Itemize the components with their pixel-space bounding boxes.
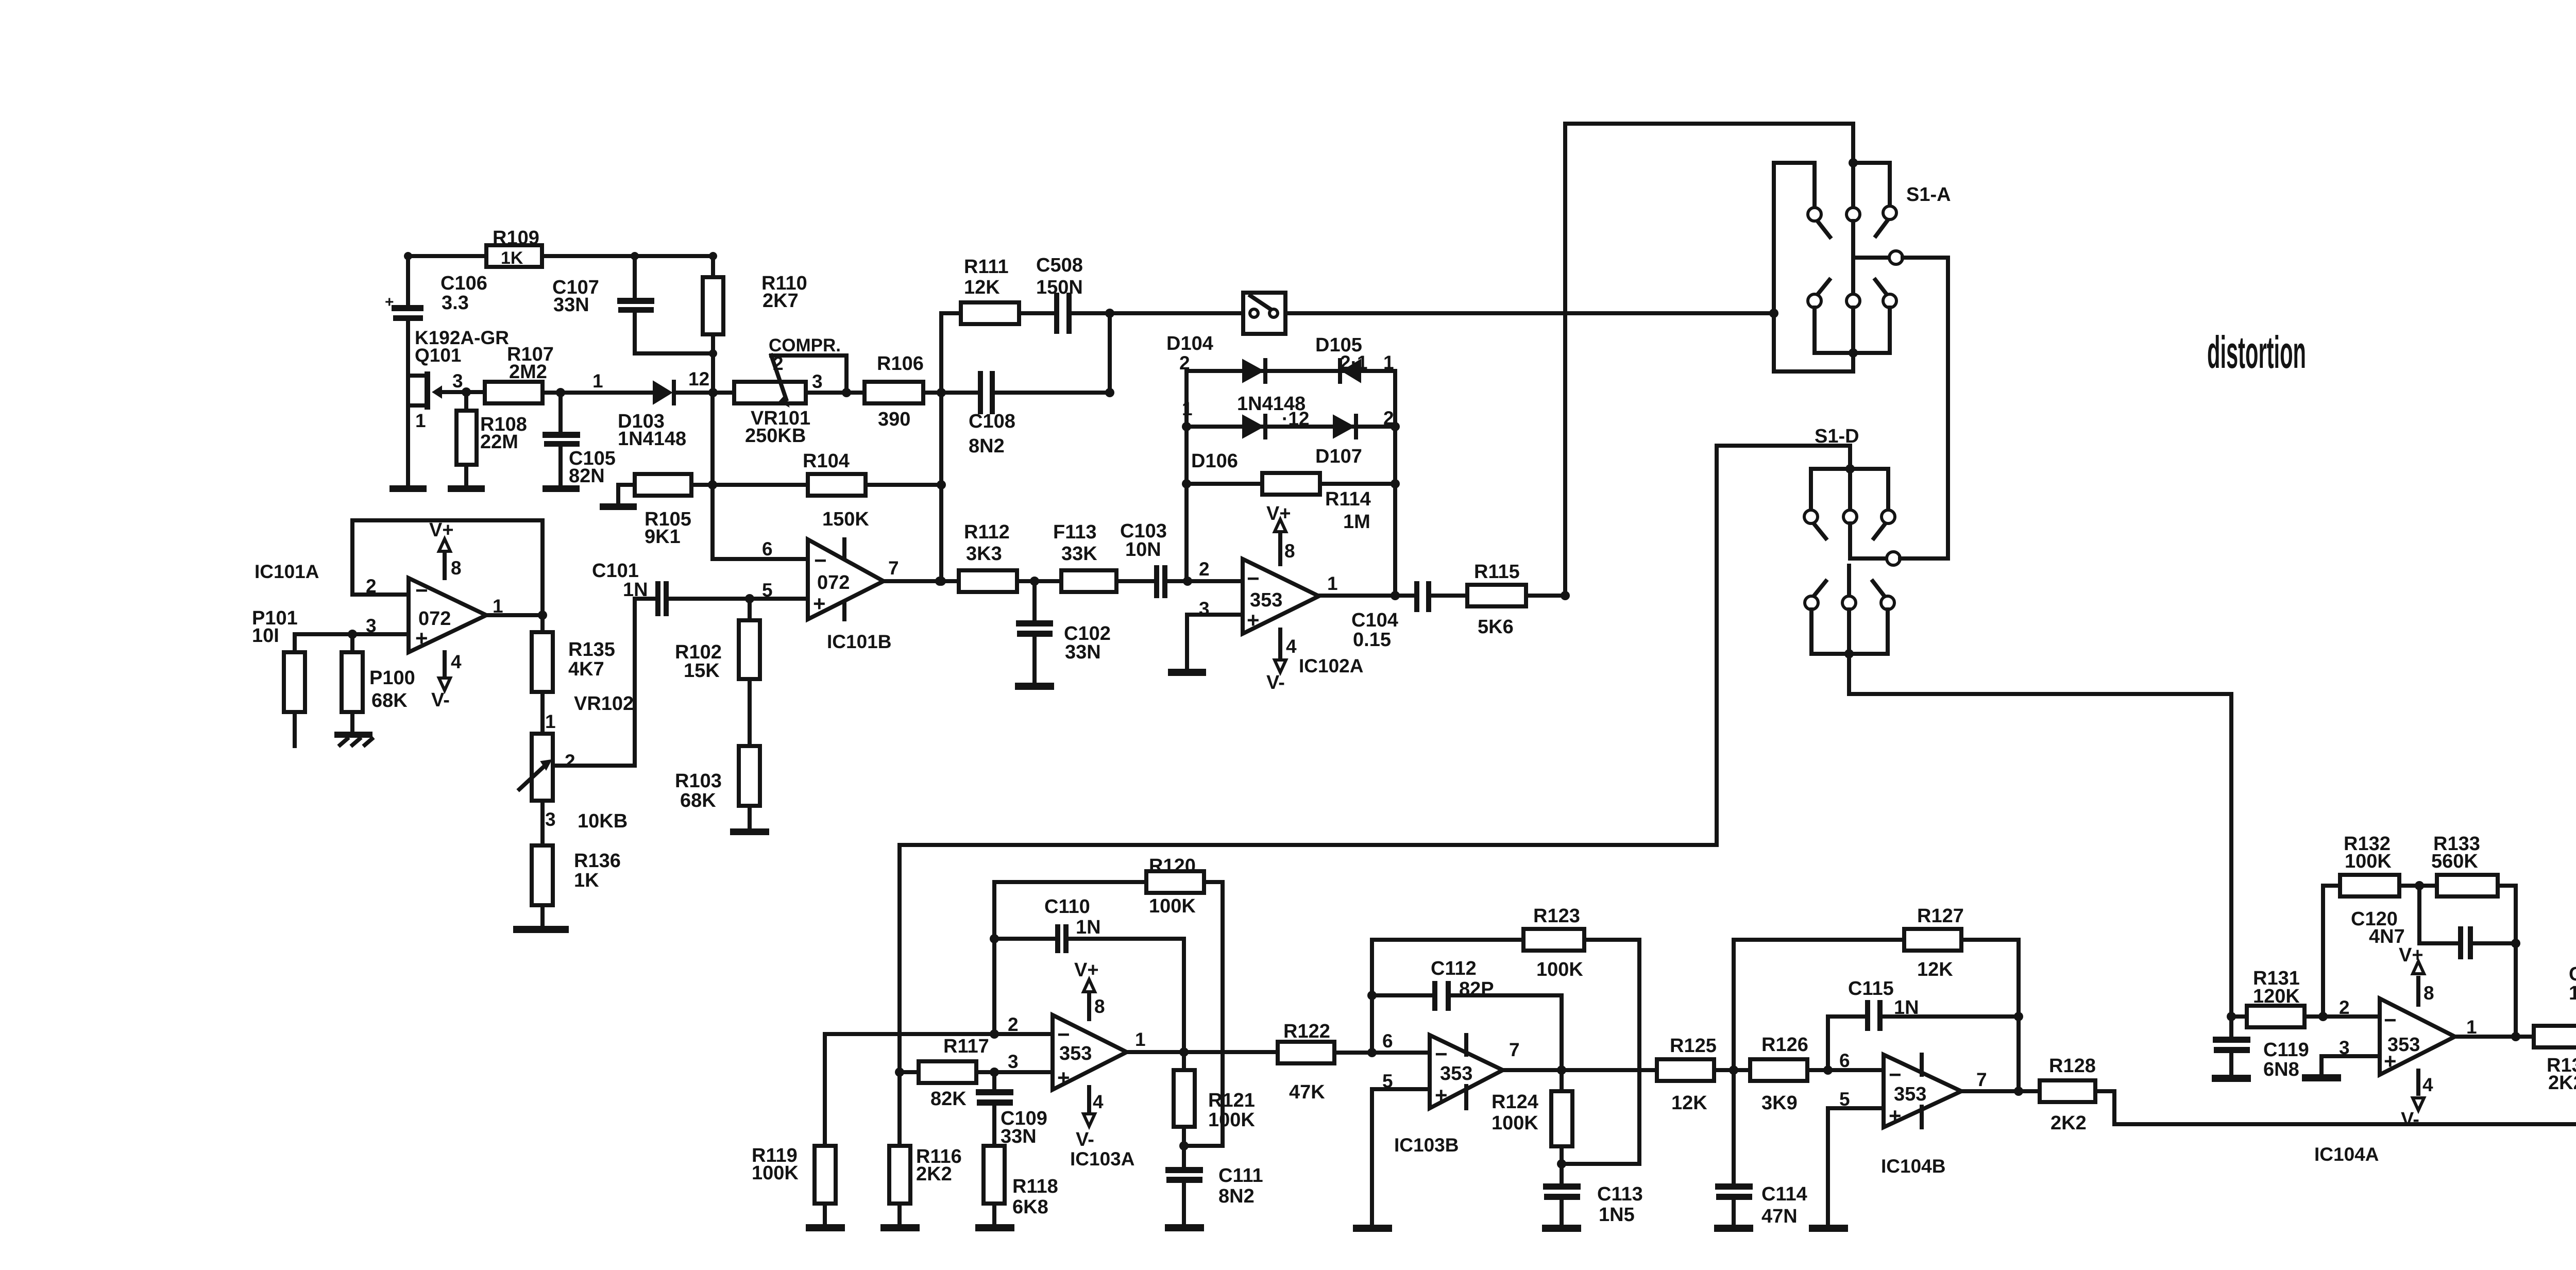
- svg-text:2K2: 2K2: [2548, 1072, 2576, 1094]
- op-amp IC103B: [1394, 1035, 1503, 1156]
- wire: [1320, 482, 1395, 486]
- junction: [937, 388, 946, 397]
- switch S1-A: [1769, 124, 1951, 371]
- junction: [1183, 577, 1192, 586]
- svg-text:2K2: 2K2: [2050, 1112, 2087, 1134]
- svg-text:4: 4: [1286, 636, 1297, 657]
- wire: [1069, 939, 1184, 1052]
- junction: [1729, 1065, 1738, 1075]
- svg-text:1: 1: [1327, 573, 1338, 594]
- junction: [1391, 479, 1400, 488]
- wire S1-A output vertical: [1946, 258, 1950, 558]
- junction: [1557, 1065, 1566, 1075]
- svg-text:D104: D104: [1166, 333, 1213, 354]
- svg-text:10KB: 10KB: [578, 810, 628, 832]
- resistor R102: [675, 599, 760, 746]
- svg-text:−: −: [1247, 566, 1260, 590]
- junction: [1030, 577, 1039, 586]
- wire: [635, 351, 713, 355]
- capacitor C109: [976, 1072, 1047, 1147]
- ground: [730, 828, 769, 835]
- svg-text:Q101: Q101: [415, 345, 462, 366]
- svg-text:V-: V-: [431, 689, 450, 711]
- svg-text:100K: 100K: [1149, 895, 1196, 917]
- junction: [1105, 309, 1114, 318]
- svg-text:+: +: [1435, 1083, 1448, 1107]
- resistor R104: [803, 450, 869, 530]
- capacitor C508: [1036, 255, 1083, 334]
- svg-text:150N: 150N: [1036, 277, 1083, 298]
- svg-text:2K7: 2K7: [762, 290, 799, 312]
- svg-text:3: 3: [452, 370, 463, 392]
- svg-text:1: 1: [1182, 398, 1193, 419]
- svg-text:R135: R135: [568, 639, 615, 661]
- capacitor C113: [1543, 1164, 1643, 1226]
- svg-text:R112: R112: [964, 521, 1010, 543]
- diode D103: [618, 380, 686, 450]
- svg-text:1N: 1N: [1894, 997, 1919, 1019]
- svg-text:22M: 22M: [480, 431, 518, 453]
- junction: [937, 577, 946, 586]
- resistor R123: [1372, 905, 1639, 980]
- wire: [1562, 1162, 1639, 1166]
- svg-text:100K: 100K: [1536, 959, 1583, 980]
- svg-text:R127: R127: [1917, 905, 1964, 927]
- ground: [1168, 669, 1206, 676]
- svg-text:100K: 100K: [1492, 1112, 1538, 1134]
- junction: [708, 480, 717, 489]
- svg-text:6K8: 6K8: [1012, 1196, 1048, 1218]
- svg-text:100K: 100K: [1208, 1109, 1255, 1131]
- junction: [1179, 1141, 1189, 1150]
- capacitor C107: [552, 256, 654, 353]
- svg-text:15K: 15K: [684, 660, 720, 682]
- svg-text:R104: R104: [803, 450, 850, 472]
- capacitor C104: [1351, 581, 1431, 651]
- V- arrow IC102A: [1266, 630, 1297, 693]
- wire: [1451, 995, 1562, 1070]
- svg-text:V+: V+: [1266, 503, 1291, 524]
- svg-text:1K: 1K: [574, 870, 599, 891]
- wire: [1526, 594, 1565, 598]
- svg-text:4: 4: [1093, 1091, 1104, 1112]
- svg-text:12: 12: [688, 368, 709, 390]
- svg-text:D107: D107: [1315, 446, 1362, 467]
- svg-text:V+: V+: [2399, 944, 2424, 966]
- svg-text:R117: R117: [943, 1036, 989, 1057]
- svg-text:+: +: [1889, 1104, 1902, 1128]
- diode D107: [1315, 414, 1362, 467]
- ground: [2212, 1075, 2251, 1082]
- V+ arrow IC104A: [2399, 944, 2434, 1005]
- svg-text:C111: C111: [1218, 1165, 1263, 1187]
- resistor R119: [752, 1145, 836, 1224]
- wire R114 row: [1187, 482, 1262, 486]
- svg-text:1: 1: [1135, 1029, 1146, 1050]
- svg-text:10N: 10N: [1125, 539, 1161, 561]
- resistor R132: [2323, 833, 2437, 896]
- svg-text:IC103A: IC103A: [1070, 1148, 1134, 1170]
- V+ arrow IC103A: [1074, 959, 1105, 1019]
- op-amp IC104B: [1881, 1055, 1961, 1177]
- svg-text:R111: R111: [964, 256, 1009, 278]
- wire R132 left vertical: [2321, 886, 2325, 1017]
- ground: [513, 926, 569, 933]
- svg-text:33N: 33N: [1065, 641, 1101, 663]
- svg-text:1: 1: [415, 410, 426, 431]
- junction: [1105, 388, 1114, 397]
- ground: [543, 485, 580, 492]
- resistor R103: [675, 746, 760, 828]
- capacitor C111: [1165, 1146, 1263, 1224]
- svg-text:3K9: 3K9: [1761, 1092, 1798, 1114]
- junction: [935, 577, 944, 586]
- svg-text:+: +: [1247, 608, 1260, 632]
- svg-text:R118: R118: [1012, 1176, 1058, 1197]
- capacitor C110: [994, 896, 1101, 953]
- wire R123 right vertical: [1637, 940, 1641, 1164]
- svg-text:C110: C110: [1044, 896, 1090, 918]
- ground: [1809, 1225, 1848, 1232]
- ground: [1015, 683, 1054, 690]
- capacitor C103: [1120, 520, 1167, 598]
- wire: [1431, 594, 1467, 598]
- wire R133 right vertical: [2514, 886, 2518, 1037]
- capacitor C106: [385, 256, 487, 321]
- svg-text:IC103B: IC103B: [1394, 1134, 1459, 1156]
- svg-text:3K3: 3K3: [966, 543, 1002, 565]
- svg-text:4: 4: [2422, 1074, 2433, 1095]
- wire cluster right vertical: [1393, 371, 1397, 596]
- svg-text:V+: V+: [429, 519, 454, 541]
- junction: [842, 388, 851, 397]
- wire S1-D output to IC104A: [1849, 654, 2231, 1017]
- capacitor C707: [2569, 963, 2576, 1037]
- wire: [1072, 311, 1243, 315]
- wire output IC103B: [1503, 1068, 1657, 1072]
- svg-text:8: 8: [2424, 983, 2434, 1004]
- junction: [745, 594, 754, 603]
- svg-text:−: −: [1889, 1062, 1902, 1087]
- svg-text:7: 7: [1976, 1069, 1987, 1090]
- transistor Q101: [408, 327, 509, 431]
- junction: [709, 349, 717, 358]
- svg-text:2·1: 2·1: [1340, 352, 1367, 373]
- svg-text:IC104A: IC104A: [2314, 1144, 2379, 1165]
- resistor R126: [1750, 1034, 1808, 1114]
- V+ arrow IC102A: [1266, 503, 1295, 564]
- svg-text:C114: C114: [1761, 1183, 1807, 1205]
- capacitor C120: [2351, 886, 2516, 959]
- wire vertical bus x1383 to pin6: [713, 393, 808, 559]
- wire output IC101A: [486, 613, 543, 617]
- wire: [1108, 313, 1112, 393]
- ground: [389, 485, 427, 492]
- junction: [2511, 939, 2520, 948]
- svg-text:C119: C119: [2263, 1039, 2309, 1061]
- svg-text:2: 2: [565, 751, 575, 772]
- junction: [1182, 479, 1191, 488]
- wire: [1807, 1068, 1884, 1072]
- junction: [538, 611, 547, 620]
- svg-text:5: 5: [762, 580, 773, 601]
- svg-text:1: 1: [545, 711, 556, 732]
- capacitor C112: [1372, 958, 1494, 1011]
- svg-text:5K6: 5K6: [1478, 616, 1514, 638]
- resistor R125: [1657, 1035, 1717, 1114]
- junction: [1367, 991, 1377, 1000]
- svg-text:C112: C112: [1431, 958, 1477, 979]
- capacitor C119: [2213, 1017, 2309, 1080]
- svg-text:V-: V-: [1266, 672, 1285, 693]
- resistor R134: [2534, 1026, 2576, 1094]
- V- arrow IC103A: [1076, 1087, 1104, 1150]
- junction: [462, 387, 471, 397]
- wire R127 right vertical: [2016, 940, 2021, 1091]
- svg-text:0.15: 0.15: [1353, 629, 1391, 651]
- svg-text:C108: C108: [969, 411, 1015, 432]
- svg-text:distortion: distortion: [2207, 327, 2306, 378]
- svg-text:47K: 47K: [1289, 1081, 1325, 1103]
- V- arrow IC104A: [2401, 1071, 2433, 1130]
- svg-text:R128: R128: [2049, 1055, 2096, 1077]
- svg-text:072: 072: [817, 572, 850, 594]
- svg-text:100K: 100K: [2345, 851, 2392, 872]
- svg-text:R103: R103: [675, 770, 722, 792]
- ground: [1165, 1224, 1204, 1231]
- svg-text:12K: 12K: [964, 277, 1000, 298]
- svg-text:2: 2: [773, 353, 784, 374]
- junction: [1391, 422, 1400, 431]
- resistor R108: [456, 392, 527, 486]
- resistor P101: [252, 607, 305, 746]
- svg-text:82N: 82N: [569, 465, 605, 487]
- resistor R115: [1467, 561, 1526, 638]
- wire pin5: [1372, 1089, 1430, 1225]
- wire pin5: [1828, 1108, 1884, 1225]
- wire: [543, 391, 653, 395]
- wire S1-D input from bottom net: [900, 446, 1717, 1146]
- svg-text:IC104B: IC104B: [1881, 1156, 1945, 1177]
- op-amp IC101A: [255, 561, 486, 652]
- svg-text:6: 6: [1839, 1050, 1850, 1071]
- junction: [990, 1068, 999, 1077]
- junction: [2014, 1012, 2023, 1021]
- svg-text:2M2: 2M2: [509, 361, 547, 383]
- svg-text:R114: R114: [1325, 488, 1371, 510]
- svg-text:7: 7: [888, 557, 899, 579]
- junction: [709, 252, 717, 260]
- junction: [990, 1029, 999, 1039]
- ground: [1714, 1225, 1753, 1232]
- svg-text:−: −: [814, 548, 827, 572]
- junction: [2511, 1032, 2520, 1041]
- svg-text:R106: R106: [877, 353, 924, 375]
- op-amp IC103A: [1053, 1015, 1134, 1170]
- svg-text:R126: R126: [1761, 1034, 1808, 1056]
- resistor P100: [342, 634, 415, 732]
- junction: [1823, 1065, 1833, 1075]
- wire: [1334, 1051, 1430, 1055]
- svg-text:9K1: 9K1: [645, 526, 681, 548]
- ground: [1353, 1225, 1392, 1232]
- svg-text:C106: C106: [440, 273, 487, 294]
- svg-text:R136: R136: [574, 850, 621, 872]
- wire: [806, 391, 865, 395]
- svg-text:150N: 150N: [2569, 983, 2576, 1004]
- svg-text:100K: 100K: [752, 1162, 799, 1184]
- wire: [691, 483, 808, 487]
- svg-text:47N: 47N: [1761, 1206, 1798, 1227]
- wire pin3: [2321, 1056, 2380, 1074]
- wire pin3: [1187, 615, 1243, 669]
- svg-text:2: 2: [1179, 352, 1190, 374]
- svg-text:−: −: [2384, 1008, 2397, 1032]
- capacitor C101: [592, 560, 669, 616]
- resistor R133: [2431, 833, 2516, 896]
- svg-text:1: 1: [592, 370, 603, 392]
- svg-text:VR102: VR102: [574, 693, 634, 715]
- wire output IC103A: [1127, 1050, 1278, 1054]
- svg-text:IC101B: IC101B: [827, 631, 891, 652]
- svg-text:8: 8: [1284, 540, 1295, 562]
- wire pin3: [295, 632, 409, 636]
- svg-text:C101: C101: [592, 560, 639, 582]
- svg-text:6N8: 6N8: [2263, 1059, 2299, 1080]
- resistor R131: [2231, 968, 2380, 1027]
- resistor R109: [486, 245, 542, 267]
- junction: [556, 388, 565, 397]
- junction: [1391, 591, 1400, 600]
- node: top rail junction left: [404, 252, 412, 260]
- svg-text:R123: R123: [1533, 905, 1580, 927]
- svg-text:V-: V-: [1076, 1129, 1094, 1150]
- wire pin2 row IC103A: [825, 1034, 1053, 1146]
- svg-text:12K: 12K: [1917, 959, 1953, 980]
- junction: [1557, 1159, 1566, 1169]
- wire: [1285, 311, 1774, 315]
- svg-text:V-: V-: [2401, 1109, 2419, 1130]
- ground: [880, 1224, 920, 1231]
- resistor R120: [994, 855, 1223, 917]
- junction: [895, 1068, 904, 1077]
- resistor R107: [485, 344, 554, 403]
- wire R128 to bottom rail: [2095, 1037, 2576, 1124]
- svg-text:6: 6: [762, 538, 773, 560]
- wire: [866, 483, 941, 487]
- potentiometer VR101: [734, 335, 846, 447]
- svg-text:560K: 560K: [2431, 851, 2478, 872]
- wire: [1116, 579, 1154, 583]
- wire wiper: [553, 599, 655, 766]
- svg-text:R124: R124: [1492, 1091, 1538, 1113]
- wire R127 left vertical: [1732, 940, 1736, 1183]
- ground: [2302, 1074, 2341, 1081]
- junction: [2415, 881, 2424, 890]
- svg-text:1N4148: 1N4148: [618, 428, 686, 450]
- potentiometer VR102: [519, 693, 634, 832]
- junction: [708, 388, 718, 397]
- capacitor C114: [1715, 1183, 1807, 1227]
- svg-text:D106: D106: [1191, 450, 1238, 472]
- V- arrow IC101A: [431, 651, 462, 711]
- svg-text:P100: P100: [369, 667, 415, 689]
- op-amp IC102A: [1243, 559, 1363, 676]
- switch S1-D: [1717, 426, 1948, 658]
- junction: [348, 630, 357, 639]
- wire R120 right vertical: [1221, 882, 1225, 1146]
- wire output IC104A: [2455, 1035, 2534, 1039]
- capacitor C102: [1016, 581, 1111, 683]
- resistor R113: [1053, 521, 1116, 592]
- svg-text:R122: R122: [1283, 1021, 1330, 1042]
- diode D104: [1237, 358, 1306, 415]
- wire: [408, 254, 486, 258]
- junction: [1179, 1047, 1189, 1057]
- svg-text:S1-A: S1-A: [1906, 184, 1951, 206]
- svg-text:+: +: [1057, 1065, 1070, 1090]
- junction: [2318, 1012, 2328, 1021]
- svg-text:1M: 1M: [1343, 511, 1370, 533]
- svg-text:R121: R121: [1208, 1090, 1255, 1111]
- wire feed to S1-A top: [1565, 124, 1853, 596]
- wire: [1017, 579, 1061, 583]
- svg-text:250KB: 250KB: [745, 425, 806, 447]
- svg-text:353: 353: [1059, 1043, 1092, 1064]
- svg-text:C707: C707: [2569, 963, 2576, 985]
- svg-text:R115: R115: [1474, 561, 1520, 583]
- switch box D104: [1166, 293, 1285, 354]
- ground: [334, 732, 372, 745]
- svg-text:2K2: 2K2: [916, 1163, 952, 1185]
- svg-text:+: +: [2384, 1049, 2397, 1073]
- op-amp IC101B: [808, 539, 891, 652]
- junction: [1561, 591, 1570, 600]
- wire: [1714, 1068, 1750, 1072]
- svg-text:8: 8: [451, 557, 462, 579]
- wire: [1019, 311, 1054, 315]
- svg-text:3: 3: [545, 809, 556, 830]
- svg-text:+: +: [813, 591, 826, 616]
- svg-text:2: 2: [1008, 1014, 1019, 1035]
- wire: [923, 391, 978, 395]
- ground: [806, 1224, 845, 1231]
- ground: [1542, 1225, 1581, 1232]
- svg-text:3: 3: [812, 371, 823, 392]
- V+ arrow IC101A: [429, 519, 462, 579]
- wire cluster left vertical: [1184, 371, 1189, 581]
- feedback wire IC101A: [352, 520, 543, 615]
- svg-text:C508: C508: [1036, 255, 1083, 276]
- resistor R118: [984, 1146, 1058, 1224]
- svg-text:3.3: 3.3: [442, 292, 469, 314]
- svg-text:C113: C113: [1597, 1183, 1643, 1205]
- svg-text:−: −: [415, 578, 428, 602]
- svg-text:390: 390: [878, 409, 910, 430]
- junction: [990, 934, 999, 943]
- wire vertical bus x1827: [941, 313, 961, 581]
- svg-text:1K: 1K: [501, 248, 523, 268]
- wire pin3 row: [900, 1070, 1053, 1074]
- svg-text:2: 2: [1199, 558, 1210, 580]
- svg-text:353: 353: [1440, 1063, 1472, 1085]
- wire output IC102A: [1319, 594, 1414, 598]
- svg-text:8N2: 8N2: [1218, 1186, 1255, 1207]
- resistor R136: [532, 801, 621, 926]
- svg-text:IC102A: IC102A: [1299, 655, 1363, 676]
- svg-text:V+: V+: [1074, 959, 1099, 981]
- svg-text:1: 1: [2466, 1017, 2477, 1038]
